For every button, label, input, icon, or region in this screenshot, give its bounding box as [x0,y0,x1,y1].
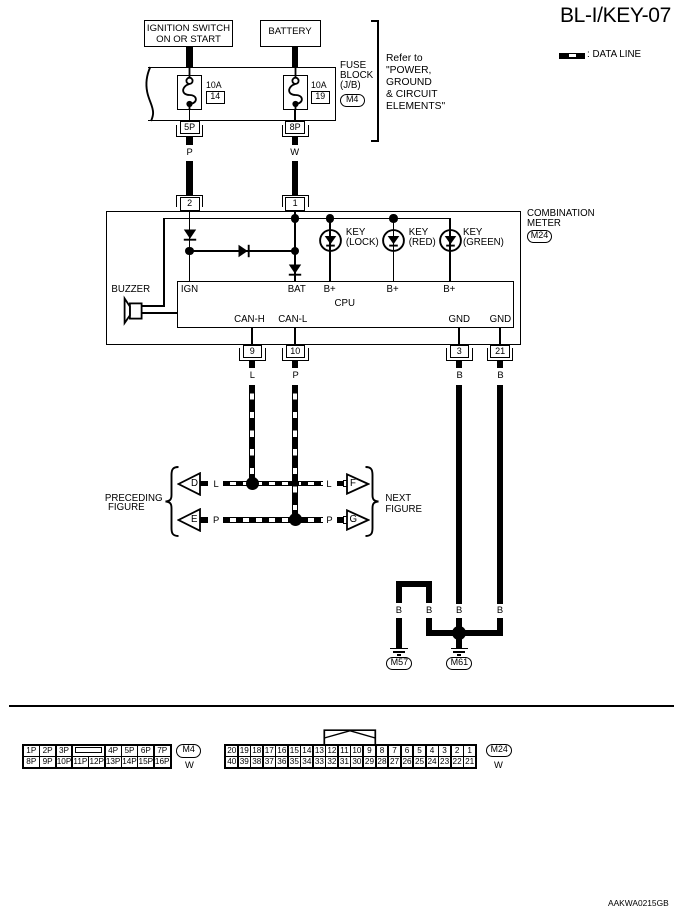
wire pin2 to CPU IGN [189,211,191,282]
pin 10 stub [292,361,298,368]
buzzer symbol [122,295,143,326]
wire CPU to pin 9 [251,328,253,346]
connector view M4 oval [176,744,201,757]
connector 8P on fuse block [285,121,305,134]
wire label B (M57) [396,605,402,614]
junction node LED1 [326,214,334,222]
label B+ 2 [387,285,399,295]
wire pin3 lower [456,618,462,637]
ground symbol M61 [451,648,469,650]
junction dot CAN-H [246,477,259,490]
wire 8P to pin 1 [292,161,298,195]
junction dot ground [452,626,466,640]
wire CPU to pin 21 [499,328,501,346]
junction node IGN [185,247,193,255]
diode D2 on horizontal wire [238,244,251,258]
CAN-L data line (pin10 down) [292,385,298,515]
wire color label W [290,147,299,156]
connector triangle F [346,473,370,495]
label F [350,479,356,489]
buzzer feed riser [163,218,165,307]
wire label L (row1 right) [326,479,331,488]
LED KEY RED [382,229,405,252]
label KEY (GREEN) [463,228,504,249]
label FUSE BLOCK (J/B) [340,61,373,91]
wire color label B (pin3) [457,370,463,379]
figure code [608,899,669,907]
label D [191,479,198,489]
connector triangle D [177,472,202,496]
ground name oval M57 [386,657,412,670]
pin 1 connector (meter) [282,195,309,208]
legend: data line symbol [559,53,585,59]
LED KEY GREEN [439,229,462,252]
ground symbol M57 [390,648,408,650]
buzzer wire top [141,305,164,307]
wire label L (row1 left) [214,479,219,488]
ground name oval M61 [446,657,472,670]
wire label B (gnd1) [456,605,462,614]
wire color label B (pin21) [497,370,503,379]
LED2 drop wire [393,218,395,281]
wire label P (row2 left) [213,515,219,524]
LED feed wire (buzzer/BAT to LEDs) [163,218,450,220]
wire stub below 8P [292,137,298,145]
fuse F14 lead to 5P [189,110,191,122]
connector oval M24 (meter) [527,230,552,243]
ground detour left leg [396,581,402,603]
note: refer to POWER GROUND & CIRCUIT ELEMENTS [386,53,445,114]
title BL-I/KEY-07 [560,5,671,26]
label CPU [335,299,355,309]
data line row1 (L) [223,481,323,487]
LED1 drop wire [329,218,331,281]
wire detour leg lower [426,618,432,637]
bracket for refer-to note [371,20,379,142]
pin 9 connector [243,345,263,358]
label PRECEDING FIGURE [105,494,163,504]
connector view M24 grid [224,744,477,769]
left brace [163,466,181,537]
wire M57 leg lower [396,618,402,648]
wire IGN junction to BAT line [190,250,296,252]
label KEY (RED) [409,228,436,249]
connector triangle E [177,508,202,532]
stub after D [200,481,209,487]
label COMBINATION METER [527,209,595,230]
pin 10 connector [286,345,306,358]
right brace [363,466,381,537]
wire battery to fuse block [292,47,298,67]
wire label B (gnd2) [497,605,503,614]
legend: DATA LINE text [587,50,641,60]
stub after E [200,517,209,523]
wire pin21 lower [497,618,503,637]
fuse block J/B box (torn left edge) [148,67,336,121]
label B+ 1 [324,285,336,295]
ground detour right leg [426,581,432,603]
wire color label P (pin10) [293,370,299,379]
fuse F19 body [283,75,308,110]
connector 5P on fuse block [180,121,200,134]
label 10A (F19) [311,81,327,90]
connector oval M4 (fuse block) [340,94,365,107]
wire label B (detour) [426,605,432,614]
ignition switch box [144,20,233,47]
pin 21 stub [497,361,503,368]
label W (M4) [185,760,194,769]
label G [350,515,358,525]
pin 2 connector (meter) [176,195,203,208]
label NEXT FIGURE [385,493,422,516]
pin 21 connector [490,345,510,358]
fuse number box 14 [206,91,226,104]
wire stub below 5P [186,137,192,145]
fuse F19 symbol [283,66,309,110]
label W (M24) [494,760,503,769]
combination meter box [106,211,521,345]
tail box G [343,516,347,524]
CPU box [177,281,514,328]
fuse number box 19 [311,91,331,104]
pin 3 stub [456,361,462,368]
wire label P (row2 right) [326,515,332,524]
wire color label L (pin9) [250,370,255,379]
data line row2 (P) [223,517,323,523]
diode D3 on BAT line [288,264,302,277]
CAN-H data line (pin9 down) [249,385,255,478]
label E [191,515,197,525]
label GND 2 [490,315,512,325]
connector view M24 tab [323,729,377,746]
junction dot CAN-L [289,513,302,526]
fuse F14 body [177,75,202,110]
wire crossing patch row1/CAN-L [292,481,299,487]
label GND 1 [449,315,471,325]
wire 5P to pin 2 [186,161,192,195]
tail box F [343,480,347,488]
wire pin1 to CPU BAT [294,211,296,282]
M61 stub [456,636,462,648]
label 10A (F14) [206,81,222,90]
label IGN [181,285,198,295]
diode D1 on IGN line [183,229,197,241]
separator line [9,705,674,707]
GND wire from pin 3 [456,385,462,604]
connector view M24 oval [486,744,512,757]
battery box [260,20,321,47]
junction node BAT top [291,214,299,222]
GND wire from pin 21 [497,385,503,604]
wire ignition to fuse block [186,47,192,67]
pin 3 connector [450,345,470,358]
label BAT [288,285,306,295]
stub before G [337,517,344,523]
label B+ 3 [443,285,455,295]
fuse F19 lead to 8P [294,110,296,122]
label CAN-L [278,315,307,325]
fuse F14 symbol [177,66,203,110]
LED KEY LOCK [319,229,342,252]
fuse block torn edge [138,65,156,123]
LED3 drop wire [449,218,451,281]
ground detour M57 top bar [396,581,432,587]
junction node BAT mid [291,247,299,255]
label BUZZER [111,285,150,295]
junction node LED2 [389,214,397,222]
stub before F [337,481,344,487]
wire color label P [187,147,193,156]
pin 9 stub [249,361,255,368]
ground bus [426,630,503,636]
buzzer wire bottom [141,312,178,314]
label CAN-H [234,315,265,325]
connector triangle G [346,509,370,531]
wire CPU to pin 10 [294,328,296,346]
wire CPU to pin 3 [458,328,460,346]
connector view M4 grid [22,744,172,769]
label KEY (LOCK) [346,228,379,249]
